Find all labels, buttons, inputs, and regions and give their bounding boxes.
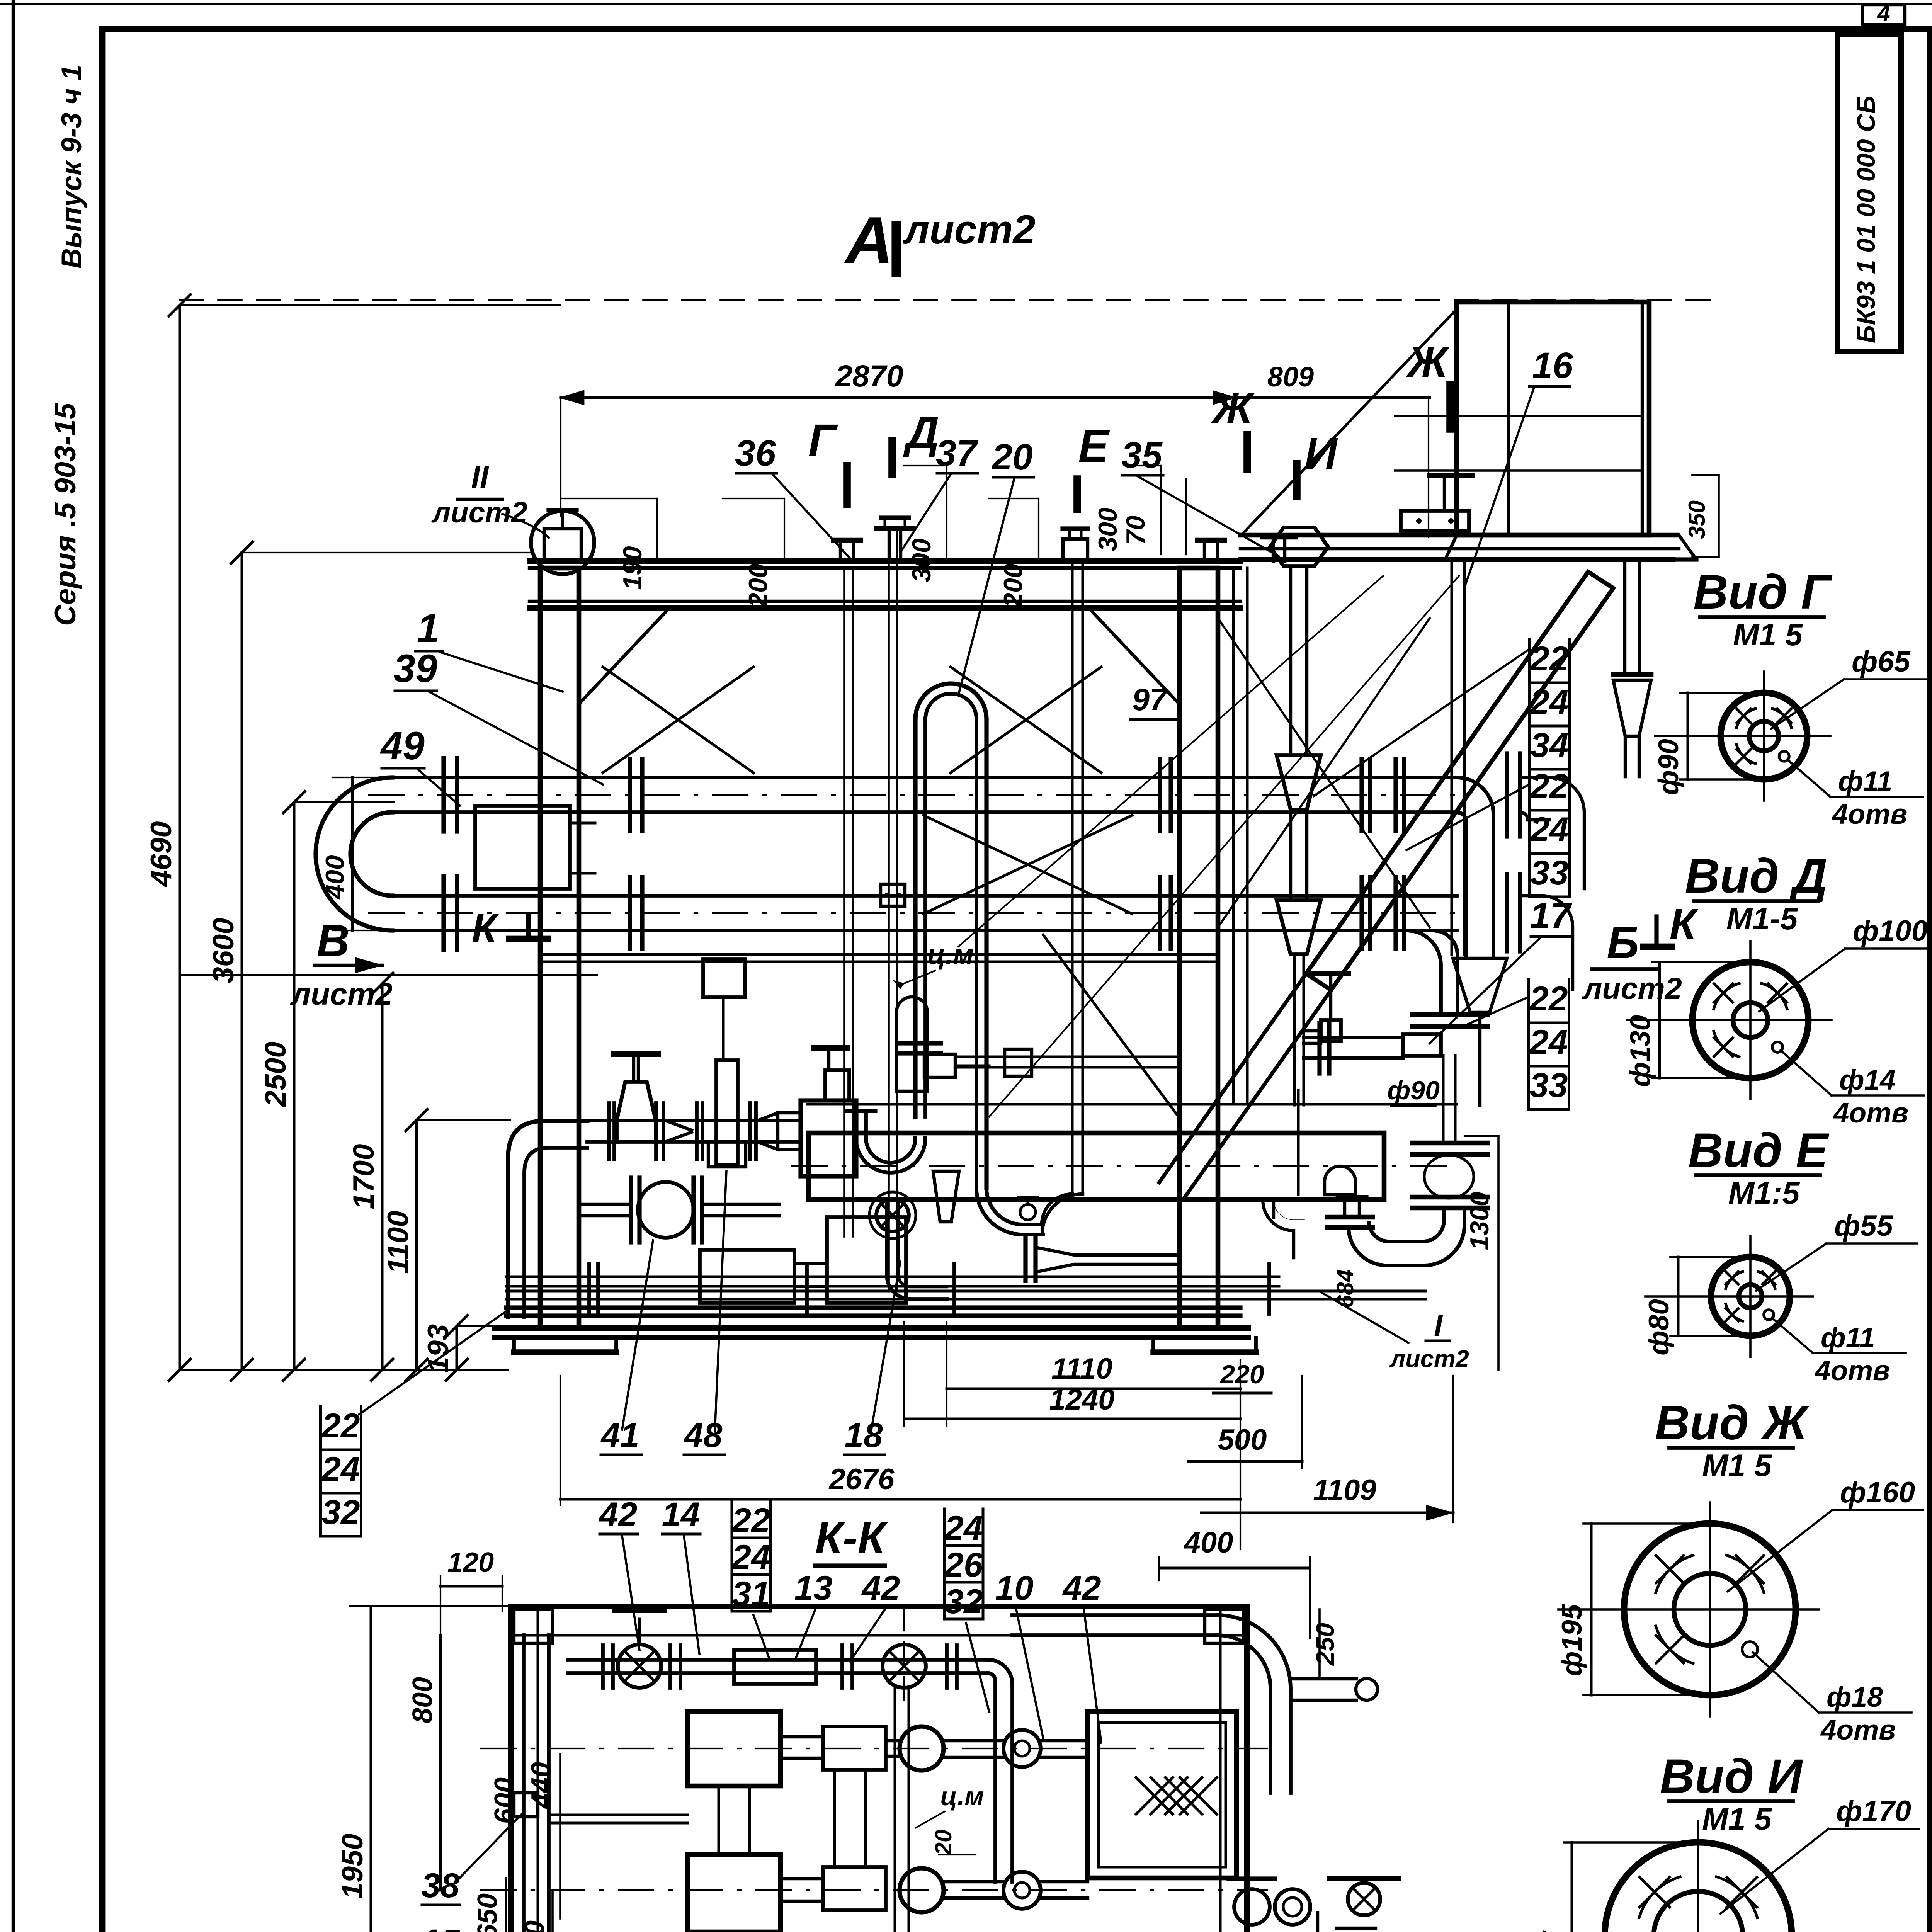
svg-text:1: 1 [417,606,439,651]
svg-text:лист2: лист2 [1389,1345,1469,1372]
svg-text:ф65: ф65 [1852,645,1911,678]
svg-text:4отв: 4отв [1832,799,1907,830]
svg-text:Выпуск 9-3 ч 1: Выпуск 9-3 ч 1 [56,65,87,269]
svg-text:22: 22 [1530,639,1569,678]
svg-text:М1:5: М1:5 [1728,1176,1800,1211]
svg-text:ц.м: ц.м [940,1782,984,1811]
svg-text:17: 17 [1530,895,1572,936]
svg-text:34: 34 [1531,726,1569,764]
svg-text:Г: Г [808,415,838,466]
svg-text:лист2: лист2 [431,496,527,529]
svg-text:В: В [316,915,349,966]
svg-text:М1-5: М1-5 [1726,901,1798,936]
svg-text:М1 5: М1 5 [1702,1448,1772,1483]
svg-text:М1 5: М1 5 [1702,1802,1772,1837]
svg-text:120: 120 [447,1547,494,1578]
svg-text:42: 42 [861,1568,900,1607]
svg-text:К: К [472,906,499,951]
svg-text:ф195: ф195 [1556,1604,1588,1676]
svg-text:4отв: 4отв [1814,1355,1890,1386]
svg-text:35: 35 [1121,435,1163,476]
svg-text:Вид Г: Вид Г [1693,565,1833,619]
svg-text:4отв: 4отв [1820,1714,1896,1746]
svg-text:БК93 1 01 00 000 СБ: БК93 1 01 00 000 СБ [1852,96,1880,343]
svg-text:24: 24 [1529,1022,1568,1061]
svg-text:400: 400 [320,855,350,900]
svg-text:А: А [844,203,893,277]
svg-text:650: 650 [472,1893,503,1932]
svg-text:24: 24 [944,1509,983,1547]
svg-text:33: 33 [1530,1066,1568,1104]
svg-text:800: 800 [407,1677,438,1723]
svg-text:48: 48 [684,1416,723,1454]
svg-text:ф205: ф205 [1537,1930,1568,1932]
svg-text:26: 26 [944,1545,983,1584]
svg-text:Вид И: Вид И [1660,1750,1804,1803]
svg-text:Е: Е [1078,421,1110,472]
svg-text:14: 14 [662,1495,700,1534]
svg-text:ф18: ф18 [1827,1682,1883,1713]
svg-text:684: 684 [1332,1269,1358,1308]
svg-text:М1 5: М1 5 [1733,617,1803,652]
svg-text:Вид Д: Вид Д [1685,849,1828,903]
svg-text:250: 250 [1311,1623,1339,1666]
svg-text:10: 10 [995,1568,1034,1607]
svg-text:1109: 1109 [1313,1474,1376,1507]
svg-text:ф130: ф130 [1625,1015,1656,1087]
svg-text:440: 440 [526,1762,557,1809]
svg-text:13: 13 [794,1568,833,1607]
svg-text:4690: 4690 [145,821,178,887]
svg-text:24: 24 [731,1537,770,1576]
svg-text:300: 300 [1093,507,1122,551]
svg-text:И: И [1304,429,1338,480]
svg-text:Ж: Ж [1211,384,1255,432]
svg-text:42: 42 [1062,1568,1101,1607]
svg-text:24: 24 [321,1449,360,1488]
svg-text:3600: 3600 [207,918,240,983]
svg-text:1300: 1300 [1465,1192,1494,1250]
svg-text:4: 4 [1877,0,1890,26]
svg-text:37: 37 [936,433,978,474]
svg-text:42: 42 [599,1495,638,1534]
svg-text:4отв: 4отв [1833,1097,1908,1129]
svg-text:41: 41 [600,1416,639,1454]
svg-text:1100: 1100 [382,1211,415,1274]
svg-text:Вид Ж: Вид Ж [1655,1396,1810,1450]
svg-text:Серия .5 903-15: Серия .5 903-15 [49,402,82,626]
svg-text:ф90: ф90 [1387,1076,1440,1105]
svg-text:ф170: ф170 [1836,1795,1911,1828]
svg-text:39: 39 [393,646,437,690]
svg-text:500: 500 [1218,1423,1267,1456]
svg-text:ф80: ф80 [1643,1299,1675,1355]
svg-text:160: 160 [519,1920,550,1932]
svg-text:36: 36 [735,433,776,474]
svg-text:ф160: ф160 [1840,1476,1915,1509]
svg-text:38: 38 [422,1866,460,1905]
svg-text:350: 350 [1684,500,1710,539]
svg-text:1700: 1700 [347,1144,380,1209]
svg-text:49: 49 [380,724,425,768]
svg-text:24: 24 [1530,810,1569,849]
svg-text:I: I [1434,1308,1443,1343]
svg-text:ф14: ф14 [1839,1065,1896,1096]
svg-text:400: 400 [1184,1526,1233,1559]
svg-text:ф100: ф100 [1853,915,1928,947]
svg-text:ф11: ф11 [1821,1322,1875,1354]
svg-text:32: 32 [945,1582,983,1621]
svg-text:лист2: лист2 [290,977,393,1012]
svg-text:33: 33 [1531,853,1569,892]
svg-text:II: II [471,460,489,495]
svg-text:1950: 1950 [336,1833,369,1899]
svg-text:18: 18 [845,1416,883,1454]
svg-text:ф55: ф55 [1834,1209,1894,1242]
svg-text:24: 24 [1530,682,1569,721]
svg-text:809: 809 [1267,362,1314,393]
svg-text:2870: 2870 [835,359,903,393]
svg-text:2500: 2500 [259,1041,292,1107]
svg-text:20: 20 [930,1830,956,1856]
svg-text:Ж: Ж [1406,338,1450,386]
svg-text:220: 220 [1219,1360,1264,1389]
svg-text:К: К [1670,900,1699,948]
svg-text:15: 15 [422,1922,460,1932]
svg-text:ф11: ф11 [1838,766,1892,797]
svg-text:16: 16 [1532,345,1573,386]
svg-text:1240: 1240 [1049,1383,1114,1416]
svg-text:22: 22 [321,1406,360,1445]
svg-text:К-К: К-К [815,1513,888,1563]
svg-text:Вид Е: Вид Е [1688,1124,1830,1177]
svg-text:97: 97 [1132,682,1168,717]
svg-text:Д: Д [903,407,939,458]
svg-text:2676: 2676 [828,1463,895,1496]
svg-text:22: 22 [731,1501,770,1539]
svg-text:лист2: лист2 [902,207,1036,252]
svg-text:лист2: лист2 [1582,971,1682,1005]
svg-text:22: 22 [1530,767,1569,805]
svg-text:70: 70 [1121,515,1150,545]
svg-text:Б: Б [1607,917,1639,968]
svg-text:32: 32 [322,1493,360,1531]
svg-text:600: 600 [489,1777,520,1824]
svg-text:1110: 1110 [1051,1352,1112,1385]
svg-text:20: 20 [991,437,1033,478]
svg-text:22: 22 [1529,979,1568,1018]
svg-text:ф90: ф90 [1653,739,1684,795]
